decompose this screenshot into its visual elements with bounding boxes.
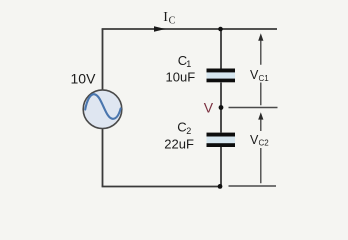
node: bottom junction — [218, 184, 223, 189]
capacitor C2 — [207, 133, 236, 147]
svg-text:22uF: 22uF — [164, 136, 194, 151]
wire: capacitor branch — [220, 29, 222, 187]
wire: top rail — [102, 28, 277, 30]
node: top junction — [218, 27, 223, 32]
voltage arrow VC1 — [258, 33, 263, 105]
svg-text:V: V — [204, 100, 214, 116]
wire: bottom rail — [102, 186, 221, 188]
capacitor C1 — [207, 69, 236, 83]
svg-text:C1: C1 — [259, 74, 270, 83]
wire: bottom reference bar — [229, 185, 277, 187]
wire: left branch — [102, 29, 104, 187]
svg-text:1: 1 — [186, 59, 191, 69]
svg-text:10V: 10V — [71, 71, 97, 87]
svg-text:C: C — [177, 120, 186, 135]
svg-text:10uF: 10uF — [166, 69, 196, 84]
voltage arrow VC2 — [258, 112, 263, 183]
voltage source VS 10V — [83, 90, 122, 129]
node V (midpoint) — [219, 105, 224, 110]
wire: mid reference bar — [229, 107, 278, 109]
svg-text:C: C — [169, 16, 176, 27]
svg-text:I: I — [163, 10, 168, 25]
svg-text:2: 2 — [186, 126, 191, 136]
svg-text:C2: C2 — [259, 139, 270, 148]
current arrow Ic — [154, 26, 166, 32]
